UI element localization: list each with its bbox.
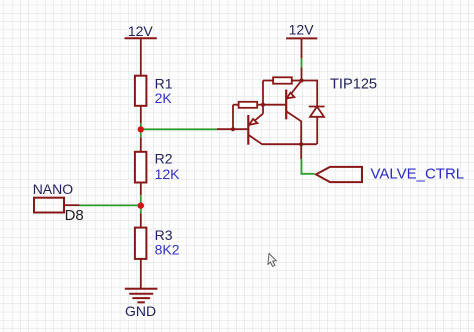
diode (flyback, internal): [309, 106, 325, 108]
transistor input collector: [248, 135, 316, 144]
transistor input emitter with arrow: [249, 114, 263, 125]
internal resistor (upper, Q2b B-E): [292, 80, 302, 82]
svg-text:12V: 12V: [128, 23, 154, 39]
svg-text:R2: R2: [155, 151, 173, 167]
resistor R2: [135, 137, 180, 195]
wire row2 to inner transistor base bar: [263, 104, 286, 106]
wire internal vertical x263: [262, 81, 264, 114]
node E junction: [299, 78, 303, 82]
svg-text:GND: GND: [125, 303, 156, 319]
power port 12V (left): [125, 23, 157, 76]
svg-text:VALVE_CTRL: VALVE_CTRL: [371, 166, 465, 183]
node C junction: [299, 142, 303, 146]
transistor collector pin down: [300, 144, 302, 159]
resistor R3: [135, 214, 180, 289]
power port 12V (right): [286, 22, 317, 59]
svg-text:12K: 12K: [155, 166, 181, 182]
wire (12V to Q1 emitter pin): [301, 58, 303, 67]
wire (node A to transistor base): [141, 128, 217, 130]
wire (NANO pin D8 to node B): [80, 204, 141, 206]
transistor inner base bar (output PNP): [285, 90, 287, 120]
transistor Q1 TIP125 (PNP darlington body): [217, 77, 325, 159]
node B junction at NANO row: [138, 202, 144, 208]
wire (rail between R1 and R2): [140, 123, 142, 137]
transistor input base bar: [247, 115, 249, 145]
mouse cursor: [268, 253, 277, 266]
node internal junction base: [231, 127, 235, 131]
node A junction below R1: [138, 126, 144, 132]
transistor input PNP base pin: [217, 128, 248, 130]
svg-text:NANO: NANO: [33, 181, 74, 197]
internal resistor (lower, Q1b B-E): [257, 104, 263, 106]
svg-text:D8: D8: [65, 207, 84, 224]
svg-text:8K2: 8K2: [155, 241, 180, 257]
wire (rail between R2 and R3): [140, 195, 142, 213]
resistor R1: [135, 75, 173, 123]
transistor inner collector: [286, 111, 301, 144]
wire (collector to port): [301, 159, 314, 174]
connector NANO: [33, 181, 84, 224]
node internal junction row2: [261, 103, 265, 107]
port VALVE_CTRL: [316, 166, 464, 183]
wire to diode top: [302, 81, 318, 107]
ground: [125, 289, 158, 303]
svg-text:2K: 2K: [155, 90, 173, 106]
transistor inner emitter with arrow: [287, 81, 301, 99]
wire internal vertical x233: [232, 105, 234, 130]
svg-text:TIP125: TIP125: [330, 77, 377, 93]
svg-text:12V: 12V: [289, 22, 315, 38]
transistor Q1 TIP125 emitter pin: [301, 67, 303, 80]
